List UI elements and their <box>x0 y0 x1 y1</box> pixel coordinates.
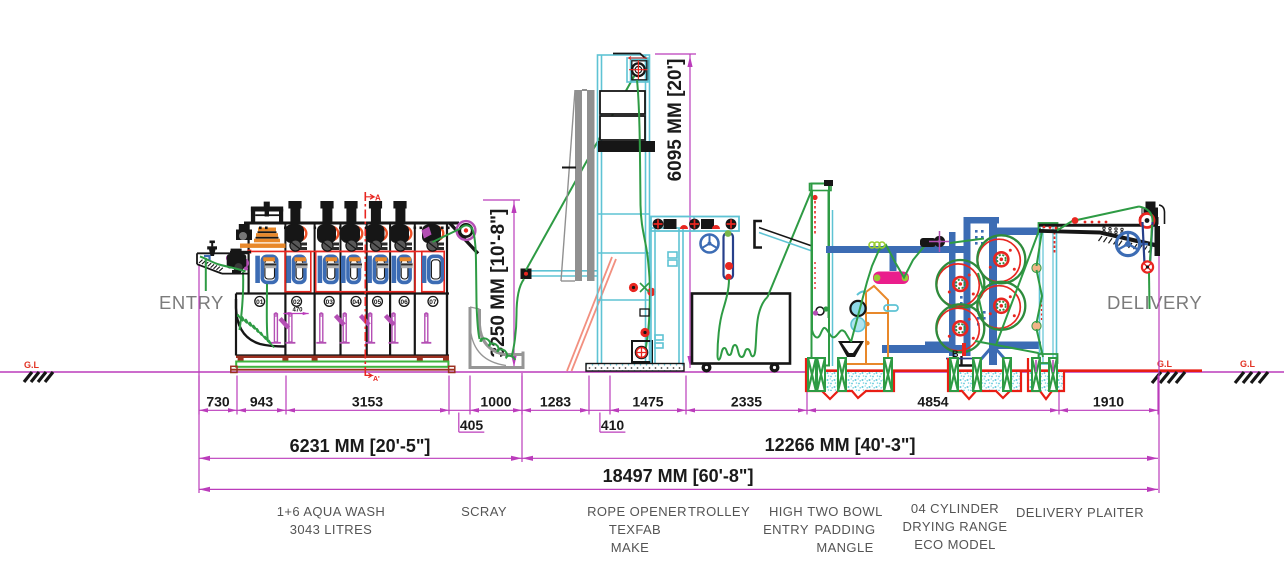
blue squeeze roller units <box>255 256 442 283</box>
svg-text:4854: 4854 <box>917 394 948 410</box>
svg-text:ROPE OPENER: ROPE OPENER <box>587 504 687 519</box>
mangle bowls <box>850 291 898 345</box>
entry fabric rope <box>200 257 246 292</box>
svg-text:04 CYLINDER: 04 CYLINDER <box>911 501 999 516</box>
exit chute diagonal <box>450 223 478 253</box>
svg-text:DRYING RANGE: DRYING RANGE <box>903 519 1008 534</box>
left end motor <box>230 224 252 253</box>
rope opener outfeed arm <box>651 217 739 232</box>
svg-text:ENTRY: ENTRY <box>763 522 809 537</box>
handwheel <box>701 235 719 253</box>
drying range columns <box>925 217 1041 365</box>
svg-text:ECO MODEL: ECO MODEL <box>914 537 996 552</box>
ground hatch left <box>24 372 53 382</box>
exit pulley <box>457 221 476 240</box>
spring coils <box>869 242 885 248</box>
entry guide roller unit <box>204 249 249 274</box>
beam tie dots <box>259 227 450 230</box>
entry feed tray <box>197 253 249 273</box>
ramp salmon lines <box>567 257 616 371</box>
magenta bracket comp07 <box>422 227 432 239</box>
foundation pit A <box>806 358 894 399</box>
svg-text:07: 07 <box>429 299 437 306</box>
svg-text:3250 MM [10'-8"]: 3250 MM [10'-8"] <box>488 209 509 358</box>
svg-text:6231 MM [20'-5"]: 6231 MM [20'-5"] <box>290 436 431 456</box>
svg-text:G.L: G.L <box>24 360 40 370</box>
rope opener white panels <box>598 91 655 152</box>
rope inside tower <box>637 80 650 357</box>
tension belt <box>724 230 734 280</box>
machine base frame <box>231 357 455 373</box>
svg-text:06: 06 <box>400 299 408 306</box>
cylinder 1 <box>977 235 1025 283</box>
ground line red segment <box>806 369 1202 372</box>
rope opener cyan tower <box>598 55 650 364</box>
column foot rollers <box>813 306 829 315</box>
G.L label left <box>24 360 40 370</box>
tower base winch <box>632 341 652 362</box>
dimension 18497 MM <box>199 466 1158 492</box>
svg-text:G.L: G.L <box>1240 359 1256 369</box>
fabric to exit pulley <box>433 225 477 303</box>
scray container <box>470 307 523 368</box>
delivery column rollers <box>1032 263 1041 272</box>
svg-text:1475: 1475 <box>632 394 663 410</box>
guide bracket <box>755 221 813 251</box>
svg-text:MANGLE: MANGLE <box>816 540 873 555</box>
drying column bolts <box>960 230 986 326</box>
svg-text:05: 05 <box>374 299 382 306</box>
dimension 6095 MM vertical <box>655 54 696 368</box>
dimension chain row1 <box>199 376 1158 415</box>
plaiter head pulley <box>1140 214 1154 228</box>
svg-text:1+6 AQUA WASH: 1+6 AQUA WASH <box>277 504 385 519</box>
rope opener gray mast <box>561 90 595 281</box>
cylinder 2 <box>936 260 984 308</box>
comp01 top frame <box>251 202 283 224</box>
fabric scray to rope opener pulley <box>512 71 638 357</box>
svg-text:730: 730 <box>206 394 230 410</box>
ground line magenta <box>0 371 1284 373</box>
green fabric in compartment 01 <box>238 272 274 347</box>
rope opener top pulley <box>613 54 648 81</box>
G.L label right1 <box>1157 359 1173 369</box>
svg-text:TEXFAB: TEXFAB <box>609 522 661 537</box>
plaiter handwheel <box>1116 232 1148 255</box>
plaiter link bars <box>1143 222 1153 264</box>
fabric loops in trolley <box>718 279 768 360</box>
svg-text:943: 943 <box>250 394 274 410</box>
dimension 12266 MM <box>522 435 1158 461</box>
magenta valve handles <box>271 313 431 343</box>
ropes at delivery column <box>996 228 1043 357</box>
foundation pit C <box>1028 358 1064 399</box>
dimension 6231 MM <box>199 436 522 461</box>
mangle top beam <box>826 246 966 271</box>
DELIVERY text <box>1107 292 1202 313</box>
svg-text:3153: 3153 <box>352 394 383 410</box>
motor units on top <box>285 201 444 251</box>
high entry ropes <box>812 191 851 342</box>
svg-text:A: A <box>375 194 381 203</box>
svg-text:PADDING: PADDING <box>814 522 875 537</box>
svg-text:TWO BOWL: TWO BOWL <box>807 504 882 519</box>
svg-text:A': A' <box>373 376 380 383</box>
fabric over mangle <box>851 242 939 343</box>
svg-text:HIGH: HIGH <box>769 504 803 519</box>
svg-text:04: 04 <box>352 299 360 306</box>
svg-text:405: 405 <box>460 417 484 433</box>
svg-text:01: 01 <box>256 299 264 306</box>
scray fabric plait <box>477 303 516 360</box>
foundation pit B <box>948 358 1021 399</box>
dim label 410 <box>600 413 626 434</box>
rope opener base strip <box>586 364 684 372</box>
high entry column <box>810 180 834 366</box>
delivery column <box>1039 223 1058 364</box>
plaiter beam <box>1039 225 1160 256</box>
svg-text:410: 410 <box>601 417 625 433</box>
extension line left x199 <box>198 264 200 493</box>
svg-text:1283: 1283 <box>540 394 571 410</box>
svg-text:ENTRY: ENTRY <box>159 292 224 313</box>
ground hatch right1 <box>1152 372 1185 383</box>
svg-text:6095 MM [20']: 6095 MM [20'] <box>665 59 686 182</box>
dimension 3250 MM vertical <box>483 200 520 368</box>
trolley <box>692 294 790 373</box>
svg-text:TROLLEY: TROLLEY <box>688 504 750 519</box>
plaiter ropes <box>1057 207 1153 310</box>
B marker <box>946 343 981 359</box>
plaiter motor <box>1139 202 1165 225</box>
tower rope rollers <box>629 283 656 337</box>
svg-text:2335: 2335 <box>731 394 762 410</box>
svg-text:1000: 1000 <box>480 394 511 410</box>
svg-text:12266 MM [40'-3"]: 12266 MM [40'-3"] <box>765 435 916 455</box>
padding mangle frame orange <box>842 286 890 364</box>
svg-text:02: 02 <box>293 299 301 306</box>
drying base black <box>952 364 972 366</box>
red dots on beam <box>1043 221 1108 230</box>
rope opener delivery column <box>651 228 683 365</box>
plaiter lower pulley <box>1142 261 1153 272</box>
orange squeezer stack <box>240 228 286 248</box>
fabric trolley to high entry <box>768 190 813 298</box>
extension line x522 <box>521 373 523 462</box>
svg-text:MAKE: MAKE <box>611 540 649 555</box>
svg-text:1910: 1910 <box>1093 394 1124 410</box>
aqua wash red liquor box outlines <box>247 250 444 292</box>
entry funnel <box>207 241 217 257</box>
cylinder 3 <box>977 282 1025 330</box>
G.L label right2 <box>1240 359 1256 369</box>
mangle trough <box>838 341 864 357</box>
ground hatch right2 <box>1235 372 1268 383</box>
cylinder 4 <box>936 304 984 352</box>
dim label 405 <box>459 413 485 434</box>
extension line right x1158 <box>1158 239 1160 493</box>
scray right guide roller <box>521 269 598 280</box>
svg-text:SCRAY: SCRAY <box>461 504 507 519</box>
mangle lower beam <box>882 345 966 353</box>
aqua wash machine body <box>236 223 459 356</box>
ENTRY text <box>159 292 224 313</box>
bottom machine labels <box>277 504 385 537</box>
svg-text:03: 03 <box>326 299 334 306</box>
svg-text:DELIVERY: DELIVERY <box>1107 292 1202 313</box>
rope wrap on cylinders <box>950 239 1041 354</box>
svg-text:DELIVERY PLAITER: DELIVERY PLAITER <box>1016 505 1144 520</box>
svg-text:3043 LITRES: 3043 LITRES <box>290 522 372 537</box>
mini dim 470 <box>283 308 308 316</box>
beam guide pulley <box>920 231 950 252</box>
drying range legs <box>976 349 1010 365</box>
mangle nip roller pink <box>873 272 909 285</box>
svg-text:470: 470 <box>292 308 303 314</box>
compartment number circles <box>255 297 438 307</box>
svg-text:18497 MM [60'-8"]: 18497 MM [60'-8"] <box>603 466 754 486</box>
section line A-A <box>365 192 381 383</box>
